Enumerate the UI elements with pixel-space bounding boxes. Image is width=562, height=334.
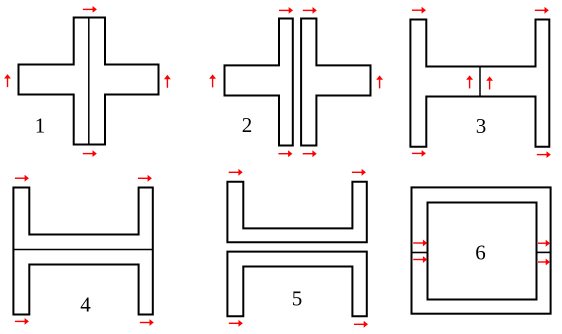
- svg-text:5: 5: [292, 287, 303, 311]
- svg-text:1: 1: [35, 114, 46, 138]
- svg-text:4: 4: [80, 293, 91, 317]
- svg-text:6: 6: [475, 241, 486, 265]
- svg-text:2: 2: [242, 113, 253, 137]
- svg-text:3: 3: [476, 114, 487, 138]
